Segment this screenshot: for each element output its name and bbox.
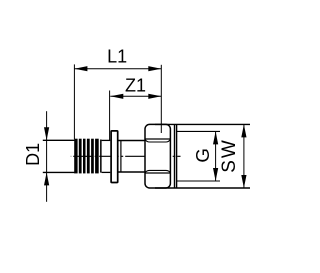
nut upper facet edge: [145, 138, 170, 140]
D1 arrowhead bottom (points up): [44, 172, 49, 185]
L1 left extension line: [73, 64, 75, 139]
G dimension line: [215, 131, 217, 181]
svg-text:D1: D1: [23, 143, 43, 166]
nut lower chamfer arc: [145, 170, 170, 172]
thread top line (G extension line): [177, 130, 220, 132]
centerline (dash-dot axis of fitting): [71, 155, 181, 157]
svg-text:Z1: Z1: [125, 75, 146, 95]
svg-text:L1: L1: [107, 47, 127, 67]
neck top edge: [118, 140, 144, 142]
pipe spigot bottom edge: [43, 171, 75, 173]
D1 dimension line: [46, 111, 48, 202]
socket body top edge (doubles as SW extension line): [155, 123, 250, 125]
pipe spigot top edge: [43, 139, 75, 141]
svg-text:SW: SW: [219, 138, 240, 173]
nut upper chamfer arc: [145, 140, 170, 143]
L1 dimension line: [74, 68, 161, 70]
tube top edge between ribs and flange: [102, 139, 111, 141]
neck bottom edge: [118, 171, 144, 173]
thread bottom line (G extension line): [177, 180, 220, 182]
L1 arrowhead left: [74, 66, 87, 71]
D1 arrowhead top (points down): [44, 127, 49, 140]
SW arrowhead top (points up): [241, 124, 246, 137]
G arrowhead bottom (points down): [213, 168, 218, 181]
SW arrowhead bottom (points down): [241, 175, 246, 188]
neck seam line: [120, 141, 122, 173]
socket mouth edge line 1: [174, 124, 176, 188]
svg-text:G: G: [192, 148, 213, 162]
tube bottom edge between ribs and flange: [102, 171, 111, 173]
socket mouth edge line 2: [176, 124, 178, 188]
Z1 arrowhead right: [148, 94, 161, 99]
Z1 left extension line: [109, 91, 111, 141]
SW dimension line: [243, 124, 245, 188]
L1 arrowhead right: [148, 66, 161, 71]
press ribs (serrated press profile): [74, 139, 101, 174]
Z1 arrowhead left: [110, 94, 123, 99]
G arrowhead top (points up): [213, 131, 218, 144]
socket body bottom edge (doubles as SW extension line): [155, 187, 250, 189]
union nut outline: [145, 124, 170, 188]
L1/Z1 right extension line: [160, 65, 162, 133]
Z1 dimension line: [110, 95, 161, 97]
flange collar: [111, 131, 118, 183]
nut lower facet edge: [145, 172, 170, 174]
